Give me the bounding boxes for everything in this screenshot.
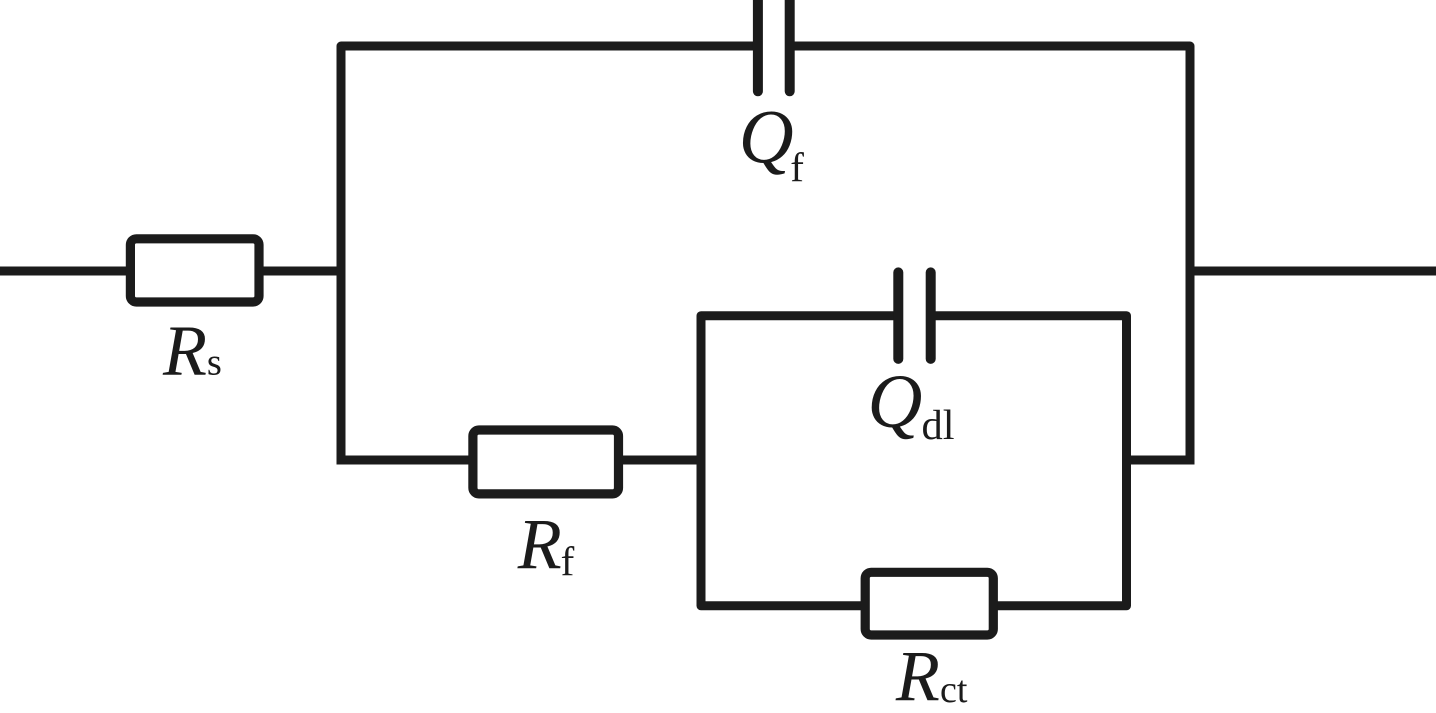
resistor R3 Rct	[865, 572, 993, 635]
wire inner loop left vertical lower and bottom-left segment	[701, 460, 862, 606]
capacitor C2 Qdl right plate	[926, 272, 936, 359]
capacitor C1 Qf left plate	[753, 0, 763, 91]
wire inner loop left vertical upper and top-left segment	[701, 316, 894, 460]
wire inner loop top-right segment right vertical and bottom-right segment	[936, 316, 1127, 606]
svg-text:R: R	[162, 310, 207, 390]
wire Rf to inner loop	[618, 456, 706, 465]
svg-text:f: f	[790, 144, 804, 190]
svg-text:s: s	[207, 342, 222, 384]
svg-text:Q: Q	[739, 95, 794, 179]
capacitor C1 Qf right plate	[785, 0, 795, 91]
resistor R2 Rf	[473, 430, 619, 494]
svg-text:Q: Q	[868, 360, 923, 444]
wire outer loop top-right segment and right vertical	[794, 46, 1190, 460]
svg-text:dl: dl	[922, 402, 955, 449]
svg-text:R: R	[895, 636, 940, 713]
svg-text:ct: ct	[940, 669, 968, 711]
resistor R1 Rs	[130, 239, 259, 302]
svg-text:f: f	[561, 539, 575, 585]
wire bottom branch left	[337, 456, 471, 465]
svg-text:R: R	[517, 504, 562, 584]
wire Rs to left vertical	[259, 267, 346, 276]
wire output right	[1186, 267, 1436, 276]
wire inner loop to outer right vertical	[1122, 456, 1195, 465]
wire outer loop left vertical and top-left segment	[341, 46, 754, 465]
capacitor C2 Qdl left plate	[893, 272, 903, 359]
wire input left	[0, 267, 130, 276]
